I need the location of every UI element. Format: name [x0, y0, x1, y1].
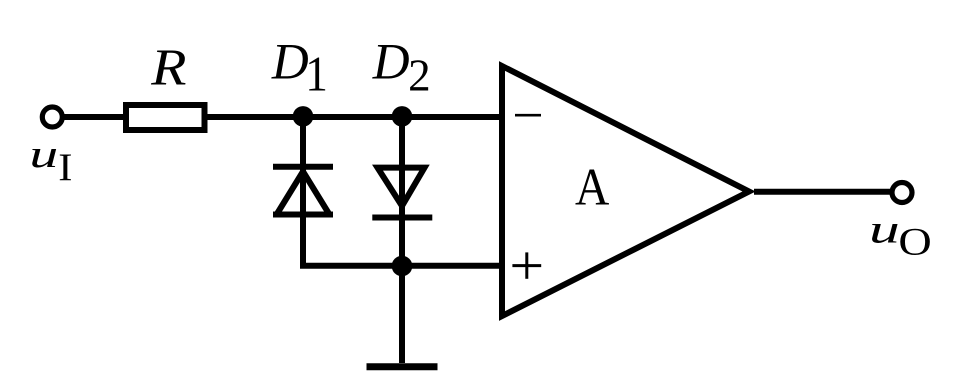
svg-text:2: 2 [408, 49, 431, 101]
svg-text:D: D [271, 34, 309, 90]
svg-text:u: u [29, 132, 58, 176]
svg-text:A: A [575, 157, 609, 216]
svg-text:R: R [150, 38, 186, 96]
svg-text:D: D [372, 34, 410, 90]
svg-text:1: 1 [305, 46, 328, 102]
svg-text:I: I [58, 144, 72, 188]
svg-text:O: O [898, 221, 931, 264]
svg-text:u: u [869, 208, 900, 252]
